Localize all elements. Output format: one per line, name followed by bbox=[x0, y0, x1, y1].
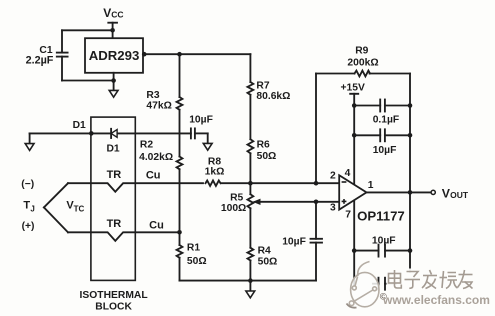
svg-text:100Ω: 100Ω bbox=[221, 203, 246, 214]
svg-text:ISOTHERMAL: ISOTHERMAL bbox=[80, 290, 148, 301]
svg-text:www.elecfans.com: www.elecfans.com bbox=[382, 293, 490, 307]
svg-text:Cu: Cu bbox=[146, 169, 161, 181]
svg-text:80.6kΩ: 80.6kΩ bbox=[256, 91, 290, 102]
svg-text:10µF: 10µF bbox=[282, 237, 306, 248]
svg-text:1kΩ: 1kΩ bbox=[205, 167, 225, 178]
svg-text:2: 2 bbox=[330, 170, 336, 181]
svg-text:D1: D1 bbox=[73, 120, 86, 131]
svg-text:OUT: OUT bbox=[450, 190, 469, 200]
svg-text:V: V bbox=[103, 6, 111, 20]
svg-text:3: 3 bbox=[330, 203, 336, 214]
svg-text:ADR293: ADR293 bbox=[89, 48, 140, 63]
svg-text:R9: R9 bbox=[355, 46, 368, 57]
svg-text:(+): (+) bbox=[22, 221, 35, 232]
svg-text:R2: R2 bbox=[140, 139, 153, 150]
svg-text:BLOCK: BLOCK bbox=[95, 302, 132, 313]
svg-text:R4: R4 bbox=[258, 246, 271, 257]
svg-text:R6: R6 bbox=[257, 139, 270, 150]
svg-text:TC: TC bbox=[74, 204, 85, 213]
svg-text:OP1177: OP1177 bbox=[357, 209, 405, 224]
svg-text:4.02kΩ: 4.02kΩ bbox=[139, 152, 173, 163]
svg-text:47kΩ: 47kΩ bbox=[146, 100, 171, 111]
svg-text:10µF: 10µF bbox=[373, 145, 397, 156]
svg-text:2.2µF: 2.2µF bbox=[26, 55, 54, 67]
svg-text:+15V: +15V bbox=[341, 83, 365, 94]
svg-text:TR: TR bbox=[107, 218, 122, 230]
svg-text:J: J bbox=[30, 204, 34, 213]
svg-text:50Ω: 50Ω bbox=[257, 151, 277, 162]
svg-text:10µF: 10µF bbox=[372, 236, 396, 247]
svg-text:7: 7 bbox=[345, 210, 351, 221]
svg-text:(−): (−) bbox=[21, 179, 34, 190]
svg-text:T: T bbox=[23, 200, 30, 212]
svg-text:D1: D1 bbox=[107, 144, 120, 155]
svg-text:R1: R1 bbox=[187, 243, 200, 254]
svg-text:R7: R7 bbox=[256, 80, 269, 91]
svg-text:200kΩ: 200kΩ bbox=[347, 57, 378, 68]
svg-text:0.1µF: 0.1µF bbox=[373, 114, 400, 125]
svg-text:4: 4 bbox=[345, 168, 351, 179]
svg-text:R3: R3 bbox=[146, 90, 159, 101]
svg-text:10µF: 10µF bbox=[189, 115, 213, 126]
svg-text:CC: CC bbox=[111, 10, 123, 20]
svg-text:Cu: Cu bbox=[149, 220, 164, 232]
svg-text:TR: TR bbox=[107, 169, 122, 181]
svg-text:1: 1 bbox=[368, 180, 374, 191]
svg-text:50Ω: 50Ω bbox=[258, 257, 278, 268]
svg-text:50Ω: 50Ω bbox=[187, 256, 207, 267]
